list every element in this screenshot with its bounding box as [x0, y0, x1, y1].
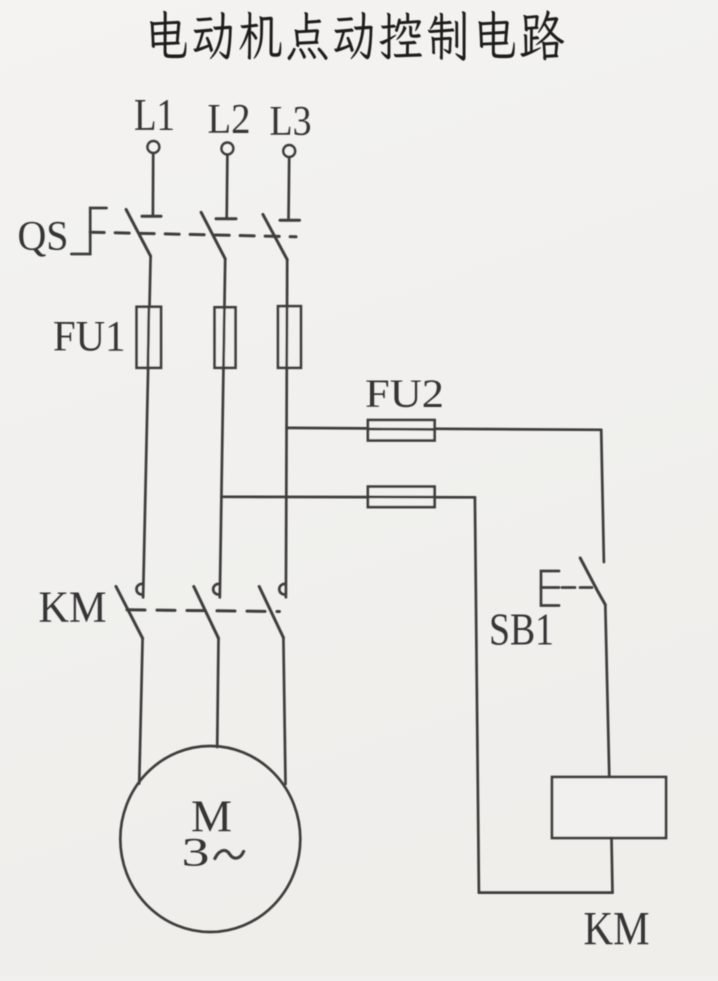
wire QS to KM pole3 — [286, 260, 287, 598]
fuse FU1 pole3 — [278, 306, 301, 368]
wire KM pole3 to motor — [283, 638, 285, 784]
svg-text:KM: KM — [39, 582, 107, 632]
wire pole2 to FU2b — [222, 495, 475, 498]
fuse FU2b wire — [368, 496, 435, 499]
QS pole2 blade — [201, 212, 225, 258]
wire KM pole1 to motor — [139, 638, 142, 783]
fuse FU1 pole2 wire — [222, 307, 226, 368]
wire L3 to QS — [287, 157, 290, 220]
wire coil bottom — [612, 838, 613, 893]
svg-text:FU1: FU1 — [53, 314, 126, 361]
fuse FU2a wire — [368, 428, 435, 431]
fuse FU2b — [368, 487, 435, 508]
svg-text:FU2: FU2 — [365, 371, 444, 416]
svg-text:L2: L2 — [208, 96, 251, 143]
motor label tilde — [215, 850, 244, 858]
fuse FU1 pole1 — [137, 307, 161, 368]
wire QS to KM pole1 — [143, 256, 151, 597]
title 电动机点动控制电路 — [150, 10, 564, 60]
QS pole3 fixed bar — [280, 219, 300, 222]
svg-text:3: 3 — [182, 831, 210, 875]
terminal L2 — [221, 143, 233, 155]
wire L1 to QS — [152, 153, 155, 216]
wire control return vertical — [475, 497, 479, 892]
KM pole1 fixed hook — [136, 584, 142, 595]
wire SB1 branch vertical — [601, 430, 604, 562]
QS operating handle — [71, 208, 106, 254]
svg-text:L1: L1 — [134, 90, 175, 140]
QS pole2 fixed bar — [216, 217, 236, 220]
svg-text:SB1: SB1 — [489, 605, 554, 655]
KM pole2 fixed hook — [213, 584, 219, 595]
KM pole3 blade — [259, 587, 283, 638]
terminal L1 — [147, 141, 159, 153]
svg-text:L3: L3 — [270, 98, 312, 145]
coil KM rectangle — [552, 777, 666, 838]
svg-text:KM: KM — [584, 903, 650, 956]
svg-text:QS: QS — [18, 214, 69, 260]
wire control return bottom — [479, 891, 613, 894]
pushbutton SB1 actuator E — [541, 571, 559, 606]
KM pole2 blade — [194, 587, 219, 639]
fuse FU1 pole1 wire — [148, 307, 149, 368]
fuse FU2a — [368, 420, 435, 441]
KM pole1 blade — [116, 587, 143, 639]
QS pole3 blade — [263, 214, 287, 259]
QS pole1 fixed bar — [142, 215, 161, 218]
wire KM pole2 to motor — [217, 638, 218, 747]
fuse FU1 pole3 wire — [285, 306, 288, 368]
wire SB1 to coil — [605, 605, 609, 777]
QS pole1 blade — [126, 210, 151, 257]
pushbutton SB1 blade — [580, 558, 605, 605]
motor M circle — [120, 746, 300, 932]
fuse FU1 pole2 — [215, 307, 236, 368]
KM linkage dashed line — [127, 610, 279, 612]
QS linkage dashed line — [90, 232, 296, 237]
wire QS to KM pole2 — [220, 259, 225, 598]
pushbutton SB1 link dashes — [562, 586, 592, 589]
pushbutton SB1 actuator mid tick — [541, 586, 559, 589]
wire pole3 to FU2a to SB1 branch — [287, 428, 602, 430]
wire L2 to QS — [225, 155, 228, 219]
KM pole3 fixed hook — [279, 584, 285, 595]
terminal L3 — [283, 145, 295, 157]
